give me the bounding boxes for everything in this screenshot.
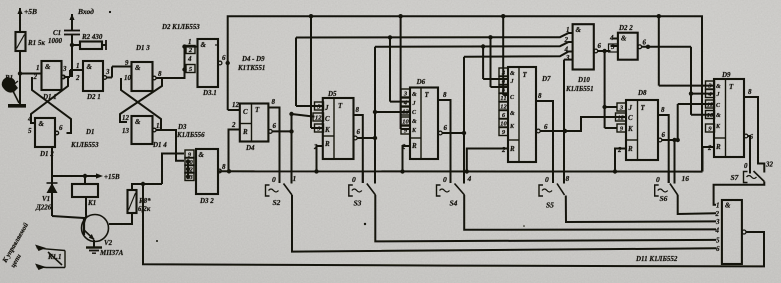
label D10 chip [565, 77, 594, 93]
wire S5 common to D11 pin3 [566, 196, 716, 223]
capacitor C1 1000 [48, 29, 80, 77]
wire D6 out6 [438, 124, 464, 135]
wire reset rail [218, 170, 703, 172]
wire L3 to D7 [483, 47, 508, 80]
microphone B1 [2, 74, 26, 108]
flip-flop D5 [313, 90, 354, 159]
switch S2 [266, 171, 297, 207]
wire D8 reset [615, 149, 626, 172]
wire D5 reset [317, 146, 323, 172]
wire D4 out8 [268, 98, 279, 183]
pin 2 label D2.1 [75, 74, 80, 82]
wire D7 reset [467, 149, 508, 172]
switch S7 [731, 161, 774, 183]
wire D9 reset [703, 147, 715, 172]
node C1-R2 [70, 43, 74, 47]
flip-flop D8 [616, 89, 659, 160]
wire D3.1 out to D4 clock [226, 61, 240, 110]
gate D1.3 [132, 44, 163, 91]
wire D9 out8 [744, 88, 764, 173]
wire D5 out6 [353, 128, 375, 140]
switch S4 [437, 172, 472, 208]
gate D1.4 [132, 116, 168, 149]
flip-flop D6 [401, 78, 438, 159]
label D11 chip [635, 255, 678, 263]
label D2.2 [618, 24, 633, 32]
junction dots on L2 [388, 35, 493, 40]
label D1 chip [70, 129, 99, 149]
gate D2.2 [609, 33, 647, 60]
wire bus L3 [375, 42, 573, 47]
wire L2 to D6 J [390, 37, 410, 101]
junction S4 digit column [462, 131, 466, 184]
flip-flop D4 [231, 101, 268, 152]
wire D8 out8 [658, 106, 669, 183]
wire D2.2 out to D9 inputs [689, 47, 714, 115]
wire S4 common to D11 pin4 [464, 195, 716, 230]
wire S7 common to D11 pin1 [714, 182, 765, 205]
diode V1 D226 [35, 176, 58, 216]
wire S2 digit column [289, 112, 314, 184]
resistor R2 430 [72, 33, 106, 50]
contact K1.1 [35, 245, 65, 271]
wire D1.4 out to D3.2 [157, 130, 185, 161]
wire D2.2 out [642, 45, 691, 49]
wire D7 out8 [536, 92, 553, 183]
gate D1.2 [35, 118, 63, 158]
gate D11 [715, 200, 742, 264]
wire D9 out6 [744, 133, 753, 169]
wire node A to D1.1 inputs [20, 73, 42, 75]
pin 1 label D1.1 [36, 64, 40, 72]
gate D3.2 [185, 149, 226, 205]
wire +15V rail [52, 174, 90, 178]
wire D8 out6 to D9 clock [676, 104, 715, 142]
junction S5 dot [563, 129, 567, 133]
wire L2 to D7 [491, 37, 509, 87]
cross-coupling latch B [120, 78, 162, 135]
speck [109, 11, 525, 242]
power +5V label and arrow [17, 7, 37, 32]
flip-flop D7 [499, 67, 551, 162]
wire R8 net to D3.2 pin9 [162, 154, 184, 185]
wire bus L4 [464, 52, 573, 134]
node A junction [18, 71, 22, 75]
wire L2 to D5 J [296, 105, 323, 107]
wire D8 out6 [658, 131, 678, 184]
wire S2 common to D11 pin6 [292, 195, 716, 252]
relay K1 coil [72, 176, 98, 215]
wire D6 reset [403, 146, 411, 172]
wire L1 to D7 [503, 16, 508, 95]
wire R8 top net [132, 182, 162, 190]
wire S3 common to D11 pin5 [375, 195, 716, 241]
wire D4 reset [229, 130, 240, 172]
wire L1 to D5 K [311, 16, 323, 128]
wire D2.1 out to D1.3 in9 [107, 59, 132, 78]
wire D10 out branch down [602, 51, 617, 128]
wire D4 out6 [268, 122, 291, 133]
wire L1 to D9 J [659, 16, 714, 85]
input label and arrow [69, 7, 111, 30]
wire D10 pin3 to S5 [564, 60, 573, 184]
label D4-D9 chips [237, 56, 265, 72]
transistor V2 MP37 [52, 197, 124, 257]
wire D1.2 to relay circuit [51, 147, 53, 176]
wire S3 digit column [373, 47, 410, 184]
switch S6 [655, 172, 690, 204]
ground for V2 [86, 248, 102, 254]
wire S6 common to D11 pin2 [678, 195, 716, 214]
+15V arrow label [90, 173, 120, 181]
pin 10 label D1.3 [124, 74, 132, 82]
gate D3.1 [186, 38, 226, 97]
pin 2 label D1.1 [33, 73, 38, 81]
junction dot on L3 [481, 44, 485, 48]
flip-flop D9 [706, 71, 745, 157]
gate D1.1 [42, 61, 68, 101]
wire D11 output feedback [143, 184, 764, 266]
junction dots reset rail [227, 169, 617, 174]
resistor R1 5k [16, 32, 46, 51]
switch S5 [539, 172, 570, 210]
gate D10 [564, 24, 602, 69]
wire bus L1 [228, 16, 702, 171]
wire L1 to D6 K [401, 16, 410, 129]
wire D7 out6 [536, 117, 626, 133]
gate D2.1 [83, 61, 110, 101]
junction dots on L1 [309, 14, 661, 18]
wire D5 out8 [354, 106, 363, 183]
tied input dots D3.2 [186, 159, 190, 178]
wire bus L2 [296, 33, 573, 106]
switch S3 [349, 171, 376, 207]
wire D1.1 out to D2.1 in1 [65, 62, 83, 77]
rotated label controlled circuit [1, 222, 30, 269]
wire R8 bottom to V2 [109, 213, 132, 224]
label D3 chip [176, 124, 205, 139]
wire D10 out to D2.2 [598, 34, 615, 53]
cross-coupling latch A [27, 77, 71, 135]
wire R1 to input node [19, 51, 21, 104]
label D2 chip [161, 24, 200, 31]
resistor R8 6.2k [128, 190, 152, 213]
wires into D3.1 [157, 44, 198, 78]
wire D6 out8 [438, 91, 451, 183]
